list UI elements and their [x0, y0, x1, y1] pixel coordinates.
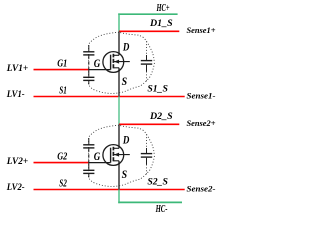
capacitor Cds2 (drain-source): [141, 134, 152, 174]
wire gate lead to Q2: [89, 162, 111, 164]
svg-text:LV1+: LV1+: [6, 63, 29, 74]
svg-text:D1_S: D1_S: [149, 19, 173, 29]
capacitor Cgs2 (gate-source): [83, 163, 94, 178]
wire gate lead to Q1: [89, 69, 111, 71]
node HC- rail (green): [118, 201, 182, 203]
wire drain of Q2: [118, 124, 120, 148]
wire drain of Q1: [118, 31, 120, 55]
wire gate G1 (red): [34, 69, 89, 71]
svg-text:HC+: HC+: [156, 3, 170, 14]
svg-text:G: G: [94, 58, 101, 70]
transistor Q1 (N-MOSFET): [103, 52, 130, 73]
wire source of Q2: [118, 161, 120, 190]
wire HC+ drop to D1 (green): [118, 13, 120, 31]
svg-text:Sense2-: Sense2-: [187, 183, 216, 193]
svg-text:D2_S: D2_S: [149, 112, 173, 122]
capacitor Cgd2 (gate-drain): [83, 138, 94, 163]
svg-text:G1: G1: [57, 59, 67, 70]
svg-text:S1_S: S1_S: [147, 84, 168, 94]
wire source row S1 / S1_S (red): [34, 96, 185, 98]
svg-text:S: S: [122, 76, 128, 88]
capacitor Cgs1 (gate-source): [83, 70, 94, 85]
dashed parasitic-capacitance loop around Q2: [89, 125, 155, 186]
capacitor Cds1 (drain-source): [141, 41, 152, 81]
svg-text:D: D: [122, 135, 130, 147]
svg-text:HC-: HC-: [155, 204, 168, 215]
wire S1 to D2 link (green): [118, 97, 120, 125]
wire source of Q1: [118, 68, 120, 97]
svg-text:G2: G2: [57, 152, 68, 163]
svg-text:S2_S: S2_S: [147, 177, 168, 187]
wire S2 drop to HC- (green): [118, 190, 120, 204]
svg-text:LV2+: LV2+: [6, 156, 29, 167]
dashed parasitic-capacitance loop around Q1: [89, 32, 155, 93]
capacitor Cgd1 (gate-drain): [83, 45, 94, 70]
svg-text:G: G: [94, 151, 101, 163]
wire drain sense D1_S (red): [119, 30, 179, 32]
svg-text:Sense2+: Sense2+: [187, 118, 216, 128]
wire drain sense D2_S (red): [119, 123, 179, 125]
svg-text:LV1-: LV1-: [6, 89, 25, 100]
svg-text:D: D: [122, 42, 130, 54]
svg-text:S: S: [122, 169, 128, 181]
wire gate G2 (red): [34, 162, 89, 164]
svg-text:S1: S1: [59, 85, 67, 96]
wire source row S2 / S2_S (red): [34, 189, 185, 191]
svg-text:Sense1-: Sense1-: [187, 90, 216, 100]
svg-text:S2: S2: [59, 178, 67, 189]
svg-text:Sense1+: Sense1+: [187, 25, 216, 35]
svg-text:LV2-: LV2-: [6, 182, 25, 193]
transistor Q2 (N-MOSFET): [103, 145, 130, 166]
node HC+ rail (green): [118, 13, 177, 15]
